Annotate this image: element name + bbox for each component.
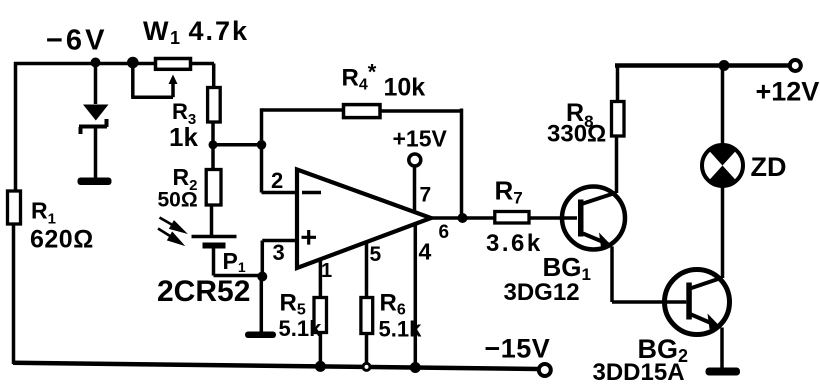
svg-text:3.6k: 3.6k: [486, 230, 543, 257]
svg-text:3DD15A: 3DD15A: [593, 359, 685, 386]
svg-text:W14.7k: W14.7k: [143, 16, 249, 48]
svg-text:5: 5: [370, 243, 382, 266]
svg-text:10k: 10k: [384, 74, 426, 102]
svg-text:1: 1: [321, 260, 332, 282]
svg-text:1k: 1k: [169, 122, 198, 152]
svg-text:+12V: +12V: [756, 77, 820, 107]
svg-text:7: 7: [420, 184, 432, 207]
svg-text:−15V: −15V: [485, 334, 551, 364]
svg-text:330Ω: 330Ω: [547, 121, 606, 148]
svg-text:3DG12: 3DG12: [504, 279, 580, 306]
svg-text:4: 4: [419, 239, 432, 265]
svg-text:2: 2: [271, 168, 283, 193]
svg-text:2CR52: 2CR52: [157, 275, 250, 308]
svg-text:3: 3: [273, 240, 285, 265]
svg-text:6: 6: [439, 222, 450, 243]
svg-text:5.1k: 5.1k: [379, 317, 423, 342]
svg-text:ZD: ZD: [751, 152, 787, 182]
svg-text:620Ω: 620Ω: [30, 226, 94, 254]
svg-text:−6V: −6V: [46, 25, 107, 57]
svg-text:5.1k: 5.1k: [279, 316, 323, 341]
svg-text:+15V: +15V: [393, 126, 448, 152]
svg-text:50Ω: 50Ω: [158, 189, 198, 212]
